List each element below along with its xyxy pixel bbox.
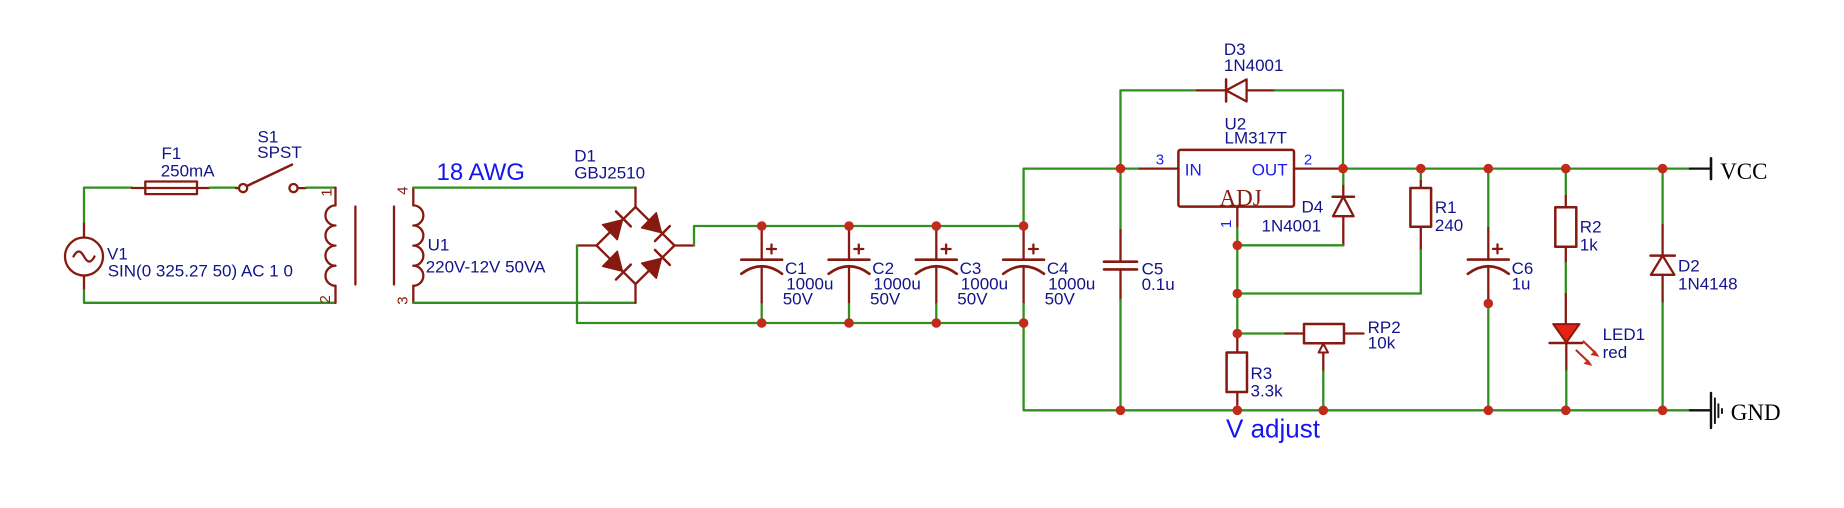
svg-text:50V: 50V [870,289,901,308]
svg-text:ADJ: ADJ [1220,185,1262,210]
junction dots [757,164,1667,415]
svg-text:R2: R2 [1580,218,1602,237]
fuse F1 [132,144,215,194]
wire bottom rail to ground rail [1024,323,1690,410]
terminal GND [1690,393,1781,428]
wire V1 top [84,188,132,222]
wire IN junction up to D3 [1119,90,1121,168]
capacitor C1 [741,226,833,323]
svg-text:240: 240 [1435,216,1463,235]
regulator U2 LM317T [1121,115,1344,246]
svg-text:1: 1 [1218,220,1235,228]
wire D3 right [1275,89,1343,91]
svg-text:1N4148: 1N4148 [1678,274,1738,293]
svg-text:1N4001: 1N4001 [1262,217,1322,236]
svg-text:D4: D4 [1302,198,1324,217]
svg-text:50V: 50V [957,289,988,308]
svg-text:2: 2 [317,295,334,303]
svg-text:U1: U1 [428,236,450,255]
resistor R1 [1410,169,1463,294]
resistor R3 [1227,338,1284,410]
potentiometer RP2 [1286,318,1401,410]
svg-text:R1: R1 [1435,198,1457,217]
svg-text:4: 4 [394,187,411,195]
diode D4 [1262,169,1355,246]
svg-text:VCC: VCC [1720,159,1767,184]
svg-text:GND: GND [1731,400,1781,425]
svg-text:OUT: OUT [1252,160,1288,179]
capacitor C4 [1003,226,1095,323]
wire VCC rail [1343,167,1690,169]
svg-text:3: 3 [1156,151,1164,168]
wire bridge minus to bottom rail [577,246,1024,324]
AC source V1 [65,222,293,290]
svg-text:1u: 1u [1512,275,1531,294]
capacitor C6 [1468,169,1533,411]
svg-text:220V-12V 50VA: 220V-12V 50VA [426,257,546,276]
wire D3 down to OUT junction [1342,90,1344,168]
wire D3 left [1121,89,1198,91]
svg-text:10k: 10k [1368,334,1396,353]
svg-text:0.1u: 0.1u [1142,275,1175,294]
wire fuse to switch [210,186,237,188]
transformer U1 [317,187,546,305]
svg-text:R3: R3 [1251,364,1273,383]
wire top rail to regulator input [1024,169,1121,226]
terminal VCC [1690,158,1767,184]
svg-text:50V: 50V [783,289,814,308]
svg-text:LM317T: LM317T [1225,129,1287,148]
svg-text:1k: 1k [1580,236,1598,255]
switch S1 [236,127,306,192]
capacitor C2 [829,226,921,323]
svg-text:50V: 50V [1045,289,1076,308]
svg-text:LED1: LED1 [1603,325,1646,344]
svg-text:250mA: 250mA [161,162,216,181]
svg-text:1: 1 [318,188,335,196]
capacitor C3 [916,226,1008,323]
svg-text:red: red [1603,343,1628,362]
wire V1 bottom [84,290,336,303]
LED LED1 [1550,294,1646,410]
wire switch to transformer [306,186,336,188]
wire ADJ to RP2 [1237,332,1285,334]
svg-text:V adjust: V adjust [1226,414,1321,444]
svg-text:2: 2 [1304,152,1312,169]
svg-text:SIN(0 325.27 50) AC 1 0: SIN(0 325.27 50) AC 1 0 [108,261,293,280]
resistor R2 [1555,169,1601,294]
wire transformer to bridge bottom [413,302,635,304]
net label V adjust [1226,414,1321,444]
svg-text:SPST: SPST [257,143,301,162]
svg-text:1N4001: 1N4001 [1224,56,1284,75]
wire transformer to bridge top [413,186,635,188]
bridge rectifier D1 [574,146,694,302]
diode D2 [1651,169,1738,411]
svg-text:18 AWG: 18 AWG [437,159,525,186]
svg-text:D2: D2 [1678,257,1700,276]
net label 18 AWG [437,159,525,186]
svg-text:3: 3 [394,296,411,304]
diode D3 [1197,40,1283,101]
svg-text:IN: IN [1185,160,1202,179]
wire R1 bottom to ADJ node [1237,292,1421,294]
svg-text:F1: F1 [162,144,182,163]
wire D4 to ADJ [1237,244,1343,246]
capacitor C5 [1104,169,1175,411]
svg-text:3.3k: 3.3k [1251,381,1284,400]
wire bridge plus to top rail [694,226,1024,246]
svg-text:GBJ2510: GBJ2510 [574,163,645,182]
wire ADJ vertical [1236,245,1238,338]
